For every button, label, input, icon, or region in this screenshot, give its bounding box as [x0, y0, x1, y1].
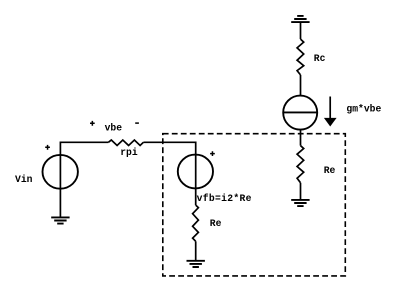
wire: top ground to Rc	[300, 22, 302, 39]
resistor rpi	[108, 140, 143, 146]
ground (inside box)	[187, 261, 205, 267]
ground (top right, inverted)	[291, 16, 309, 22]
svg-text:vbe: vbe	[105, 122, 123, 133]
svg-text:Re: Re	[210, 218, 222, 229]
svg-text:gm*vbe: gm*vbe	[346, 104, 381, 115]
svg-text:vfb=i2*Re: vfb=i2*Re	[197, 193, 252, 204]
svg-text:Re: Re	[324, 165, 336, 176]
current source chord	[283, 111, 317, 113]
feedback dashed box	[163, 134, 345, 276]
plus sign (vfb)	[210, 151, 215, 156]
plus sign (vbe)	[90, 121, 95, 126]
plus sign (Vin)	[45, 145, 50, 150]
minus sign (vbe)	[135, 122, 139, 124]
wire: Rc to current source	[300, 75, 302, 96]
resistor Re (inside box)	[193, 205, 199, 241]
arrow (current direction)	[329, 97, 331, 119]
svg-text:rpi: rpi	[120, 147, 138, 158]
svg-text:Vin: Vin	[15, 174, 33, 185]
dependent source vfb=i2*Re	[178, 155, 213, 189]
resistor Re (right)	[297, 146, 304, 183]
ground (right)	[291, 200, 309, 206]
wire: Re to ground (right)	[300, 183, 302, 200]
wire: Re to ground	[195, 241, 197, 260]
wire: rpi to vfb node and down	[143, 142, 195, 205]
ground (under Vin)	[51, 217, 69, 223]
resistor Rc	[297, 39, 304, 75]
svg-text:Rc: Rc	[314, 53, 326, 64]
voltage source Vin	[43, 155, 78, 189]
current source gm*vbe	[283, 96, 317, 130]
wire: current source to Re (right)	[300, 130, 302, 146]
wire: Vin vertical	[60, 142, 108, 217]
